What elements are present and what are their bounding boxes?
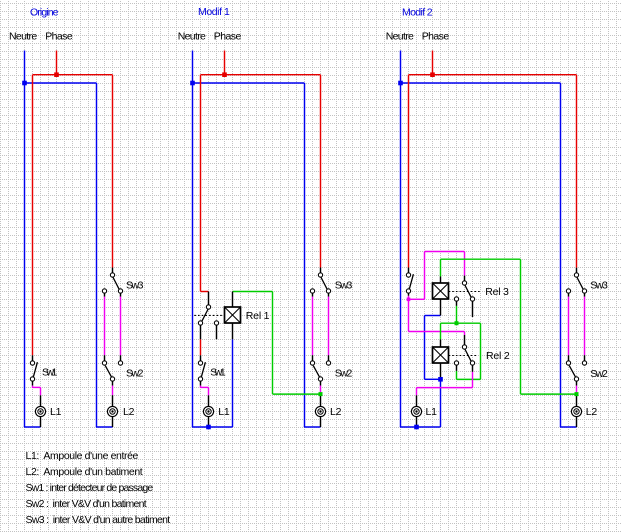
svg-text:Origine: Origine [30,6,59,18]
svg-text:L2: L2 [123,406,135,418]
svg-text:L1: Ampoule d'une entrée: L1: Ampoule d'une entrée [26,450,139,462]
svg-text:Sw2: Sw2 [590,368,608,380]
svg-text:Rel 1: Rel 1 [246,310,270,322]
svg-text:L2: L2 [330,406,342,418]
svg-text:Neutre: Neutre [386,30,414,42]
svg-text:L2: Ampoule d'un batiment: L2: Ampoule d'un batiment [26,466,143,478]
svg-text:Sw1: Sw1 [210,366,226,378]
svg-text:Sw3: Sw3 [126,280,144,292]
svg-text:Phase: Phase [45,30,73,42]
svg-text:Phase: Phase [422,30,450,42]
svg-text:Sw3 : inter V&V d'un autre ba: Sw3 : inter V&V d'un autre batiment [26,514,171,526]
svg-text:Sw1: Sw1 [42,366,58,378]
svg-text:Sw3: Sw3 [590,280,608,292]
svg-text:L1: L1 [218,406,230,418]
svg-text:Modif 2: Modif 2 [402,7,433,19]
svg-text:L1: L1 [50,406,62,418]
svg-text:L2: L2 [586,406,598,418]
svg-text:Rel 3: Rel 3 [485,286,509,298]
svg-text:Sw2: Sw2 [126,367,144,379]
svg-text:Sw2: Sw2 [335,367,353,379]
svg-text:Sw3: Sw3 [335,280,353,292]
svg-text:Neutre: Neutre [178,30,206,42]
svg-text:L1: L1 [426,406,438,418]
svg-text:Neutre: Neutre [9,30,37,42]
svg-text:Modif 1: Modif 1 [198,6,230,18]
svg-text:Phase: Phase [214,30,242,42]
svg-text:Rel 2: Rel 2 [486,350,510,362]
svg-text:Sw2 : inter V&V d'un batiment: Sw2 : inter V&V d'un batiment [26,498,147,510]
svg-text:Sw1 : inter détecteur de passa: Sw1 : inter détecteur de passage [26,482,154,494]
